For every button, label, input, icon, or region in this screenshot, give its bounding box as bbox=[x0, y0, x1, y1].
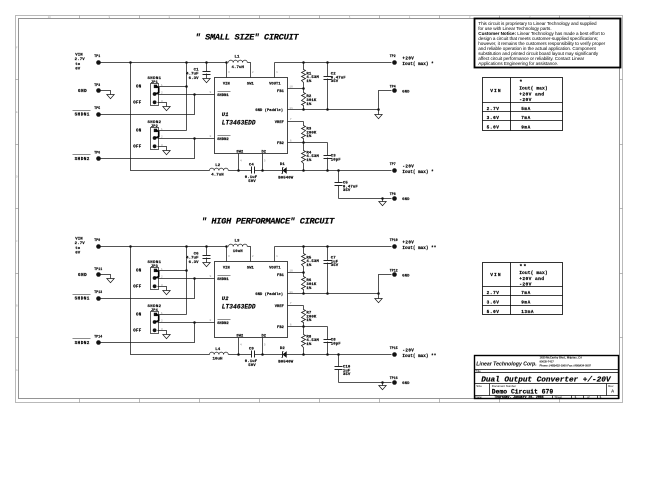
U2 side pin numbers bbox=[210, 269, 294, 347]
U2 SHDN2 pin name bbox=[217, 320, 230, 327]
junction D2 stub / rail bbox=[261, 169, 264, 172]
svg-text:L4: L4 bbox=[215, 348, 221, 352]
capacitor C1 bbox=[203, 63, 211, 79]
junction VIN rail / jumper drop bbox=[185, 61, 188, 64]
ground symbol at TP16 bbox=[379, 383, 386, 390]
svg-text:TP15: TP15 bbox=[390, 346, 398, 350]
wire D2 pin stub bbox=[262, 154, 264, 171]
label Size bbox=[476, 384, 482, 388]
svg-text:TP12: TP12 bbox=[390, 268, 398, 272]
U2 GND paddle pin name bbox=[255, 292, 283, 297]
testpoint TP4 (GND) bbox=[390, 84, 411, 94]
U1 FB2 pin name bbox=[277, 142, 284, 146]
wire SW2 pin stub bbox=[238, 154, 240, 171]
wire jumper ON drop bbox=[186, 247, 188, 315]
svg-text:Linear Technology Corp.: Linear Technology Corp. bbox=[476, 361, 536, 367]
jumper JP2 pin 2 bbox=[153, 136, 157, 140]
svg-text:A: A bbox=[611, 389, 614, 395]
svg-text:SW1: SW1 bbox=[247, 267, 255, 271]
table * header bbox=[490, 80, 548, 104]
U2 FB2 pin name bbox=[277, 326, 284, 330]
testpoint TP1 (VIN) bbox=[94, 54, 101, 65]
svg-text:FB2: FB2 bbox=[277, 326, 284, 330]
svg-text:2: 2 bbox=[161, 319, 163, 323]
wire C5 to TP8 bbox=[339, 198, 392, 200]
U2 part number LT3463EDD bbox=[222, 303, 256, 310]
jumper JP2 body bbox=[151, 128, 159, 150]
svg-text:B0540W: B0540W bbox=[278, 360, 294, 364]
jumper JP3 SHDN1 label bbox=[147, 261, 161, 269]
wire JP3 pin1 to VIN drop bbox=[158, 270, 187, 272]
svg-text:9: 9 bbox=[210, 274, 212, 278]
jumper JP2 OFF label bbox=[133, 146, 142, 150]
wire JP4 pin1 to VIN drop bbox=[158, 314, 187, 316]
label Document Number bbox=[492, 384, 516, 388]
U2 reference bbox=[222, 296, 229, 302]
wire JP2 pin2 to U SHDN2 pin bbox=[158, 138, 215, 140]
svg-text:GND: GND bbox=[402, 274, 410, 278]
junction ground tap bbox=[381, 381, 384, 384]
wire JP3 pin3 to ground bbox=[158, 287, 167, 291]
svg-text:+20V and: +20V and bbox=[519, 276, 544, 282]
svg-text:Sheet: Sheet bbox=[555, 395, 563, 399]
wire FB2 pin net bbox=[288, 142, 328, 144]
svg-text:TP11: TP11 bbox=[94, 267, 102, 271]
svg-text:-20V: -20V bbox=[402, 166, 414, 170]
ground symbol at JP1 bbox=[163, 107, 170, 111]
U1 bottom pin names bbox=[236, 150, 266, 154]
junction SHDN1 net bbox=[193, 93, 196, 96]
table Iout(max) * grid bbox=[483, 78, 563, 131]
U1 side pin numbers bbox=[210, 85, 294, 163]
date value bbox=[494, 395, 543, 399]
resistor R8 bbox=[302, 327, 320, 355]
capacitor C3 bbox=[324, 143, 342, 171]
svg-text:D2: D2 bbox=[280, 347, 286, 351]
svg-text:GND (Paddle): GND (Paddle) bbox=[255, 108, 283, 113]
wire TP4 to GND net bbox=[379, 91, 392, 110]
wire VIN feed drop to lower inductor bbox=[131, 63, 210, 171]
jumper JP1 ON label bbox=[136, 86, 142, 90]
svg-text:JP1: JP1 bbox=[151, 81, 158, 85]
wire JP3 pin2 to U SHDN1 pin bbox=[158, 278, 215, 280]
wire C10 to TP16 bbox=[339, 382, 392, 384]
U1 SHDN1 pin name bbox=[217, 92, 230, 99]
wire TP14 to jumper pin 2 net bbox=[101, 323, 195, 343]
svg-text:1%: 1% bbox=[306, 80, 312, 84]
testpoint TP14 (SHDN2) bbox=[73, 335, 103, 346]
jumper JP3 pin numbers bbox=[161, 267, 163, 287]
table * row 2.7V = 5mA bbox=[487, 107, 531, 112]
jumper JP2 SHDN2 label bbox=[147, 121, 161, 129]
svg-text:1%: 1% bbox=[306, 135, 312, 139]
svg-text:Rev: Rev bbox=[608, 384, 614, 388]
svg-text:OFF: OFF bbox=[133, 286, 142, 290]
svg-text:SW2: SW2 bbox=[236, 334, 243, 338]
wire jumper ON drop bbox=[186, 63, 188, 131]
testpoint TP10 (+20V) bbox=[390, 238, 398, 249]
ground symbol at JP2 bbox=[163, 151, 170, 155]
svg-text:SHDN1: SHDN1 bbox=[217, 94, 229, 98]
svg-text:Date:: Date: bbox=[475, 395, 482, 399]
wire +20V output rail bbox=[275, 62, 392, 64]
svg-text:8: 8 bbox=[210, 134, 212, 138]
svg-text:VIN: VIN bbox=[223, 267, 230, 271]
junction GND net / C2 bbox=[326, 108, 329, 111]
testpoint TP8 (GND) bbox=[390, 192, 411, 202]
title small size circuit bbox=[195, 33, 299, 43]
revision A bbox=[611, 389, 614, 395]
resistor R2 bbox=[302, 89, 317, 110]
svg-text:VREF: VREF bbox=[275, 305, 284, 309]
svg-text:TP10: TP10 bbox=[390, 238, 398, 242]
capacitor C6 bbox=[203, 247, 211, 263]
junction SW2 stub / rail bbox=[237, 353, 240, 356]
svg-text:GND: GND bbox=[402, 198, 410, 202]
svg-text:B0540W: B0540W bbox=[278, 176, 294, 180]
svg-text:95035-7417: 95035-7417 bbox=[540, 359, 555, 363]
svg-text:-20V: -20V bbox=[519, 281, 532, 287]
wire VREF pin to divider bbox=[288, 121, 304, 123]
svg-text:2: 2 bbox=[161, 135, 163, 139]
junction GND net / C7 bbox=[326, 292, 329, 295]
svg-text:Document Number: Document Number bbox=[492, 384, 516, 388]
svg-text:50V: 50V bbox=[248, 364, 256, 368]
jumper JP4 ON label bbox=[136, 314, 142, 318]
jumper JP1 pin numbers bbox=[161, 83, 163, 103]
svg-text:SW1: SW1 bbox=[247, 83, 255, 87]
junction -20V rail / C8 bbox=[326, 353, 329, 356]
wire FB1 pin to divider bbox=[288, 88, 304, 90]
jumper JP2 pin 1 (ON) bbox=[154, 129, 157, 132]
testpoint TP2 (+20V) bbox=[390, 54, 397, 65]
inductor L1 bbox=[229, 56, 248, 70]
svg-text:6V: 6V bbox=[75, 67, 81, 71]
svg-text:Iout( max) **: Iout( max) ** bbox=[402, 354, 436, 359]
capacitor C5 bbox=[335, 171, 359, 199]
svg-text:1: 1 bbox=[575, 395, 577, 399]
capacitor C4 (flying) bbox=[245, 163, 258, 183]
svg-text:2.7V: 2.7V bbox=[75, 242, 86, 246]
junction +20V rail / R5 bbox=[302, 245, 305, 248]
svg-text:TP8: TP8 bbox=[390, 192, 396, 196]
capacitor C1 value label bbox=[186, 68, 199, 80]
junction FB1 / R5 / R6 bbox=[302, 271, 305, 274]
resistor R5 bbox=[302, 247, 320, 273]
svg-text:+20V: +20V bbox=[402, 242, 414, 246]
svg-text:LT3463EDD: LT3463EDD bbox=[222, 119, 256, 126]
junction D2 stub / rail bbox=[261, 353, 264, 356]
svg-text:1: 1 bbox=[276, 70, 278, 74]
svg-text:TP14: TP14 bbox=[94, 335, 102, 339]
wire +20V output rail bbox=[275, 246, 392, 248]
label Rev bbox=[608, 384, 614, 388]
svg-text:TP13: TP13 bbox=[94, 290, 102, 294]
svg-text:Title: Title bbox=[475, 369, 481, 373]
junction -20V rail / C5 bbox=[337, 169, 340, 172]
svg-text:SHDN1: SHDN1 bbox=[75, 296, 90, 301]
svg-text:OFF: OFF bbox=[133, 330, 142, 334]
svg-text:GND: GND bbox=[78, 89, 87, 94]
svg-text:35V: 35V bbox=[331, 264, 339, 268]
svg-text:JP3: JP3 bbox=[151, 265, 158, 269]
svg-text:35V: 35V bbox=[331, 80, 339, 84]
svg-text:1%: 1% bbox=[306, 319, 312, 323]
jumper JP2 shorting bar pins 1-2 bbox=[155, 130, 159, 138]
company name bbox=[476, 361, 536, 367]
jumper JP3 pin 1 (ON) bbox=[154, 269, 157, 272]
jumper JP3 body bbox=[151, 268, 159, 290]
jumper JP3 pin 3 (OFF) bbox=[153, 284, 157, 288]
svg-text:1: 1 bbox=[276, 254, 278, 258]
jumper JP1 pin 3 (OFF) bbox=[153, 100, 157, 104]
wire flying cap to diode D2 bbox=[255, 354, 283, 356]
jumper JP3 ON label bbox=[136, 270, 142, 274]
ground symbol on GND paddle net bbox=[375, 294, 382, 303]
svg-text:-20V: -20V bbox=[402, 350, 414, 354]
svg-text:8: 8 bbox=[210, 318, 212, 322]
svg-text:2: 2 bbox=[161, 275, 163, 279]
svg-text:SHDN2: SHDN2 bbox=[217, 138, 229, 142]
junction VIN rail / jumper drop bbox=[185, 245, 188, 248]
node VIN input labels bbox=[75, 54, 86, 72]
svg-text:*: * bbox=[519, 80, 523, 86]
jumper JP4 pin 3 (OFF) bbox=[153, 328, 157, 332]
svg-text:Iout( max) *: Iout( max) * bbox=[402, 170, 434, 175]
svg-text:VIN: VIN bbox=[75, 238, 83, 242]
svg-text:7mA: 7mA bbox=[521, 291, 531, 296]
testpoint TP16 (GND) bbox=[390, 376, 411, 386]
wire VIN pin stub bbox=[226, 247, 228, 262]
U1 GND paddle pin name bbox=[255, 108, 283, 113]
op-amp U1 LT3463EDD body bbox=[215, 78, 288, 154]
svg-text:U2: U2 bbox=[222, 296, 229, 302]
svg-text:2: 2 bbox=[161, 91, 163, 95]
node VIN input labels bbox=[75, 238, 86, 256]
wire JP1 pin3 to ground bbox=[158, 103, 167, 107]
svg-text:ON: ON bbox=[136, 86, 142, 90]
junction -20V rail / R4 bbox=[302, 169, 305, 172]
testpoint TP13 (SHDN1) bbox=[73, 290, 103, 301]
op-amp U2 LT3463EDD body bbox=[215, 262, 288, 338]
svg-text:of: of bbox=[587, 395, 590, 399]
wire VOUT1 pin stub bbox=[274, 63, 276, 78]
svg-text:D1: D1 bbox=[280, 163, 286, 167]
svg-text:JP4: JP4 bbox=[151, 309, 159, 313]
document number Demo Circuit 679 bbox=[492, 388, 554, 395]
junction VIN rail / feed drop bbox=[129, 61, 132, 64]
wire JP1 pin1 to VIN drop bbox=[158, 86, 187, 88]
U2 SHDN1 pin name bbox=[217, 276, 230, 283]
junction +20V rail / R1 bbox=[302, 61, 305, 64]
capacitor C2 bbox=[324, 63, 347, 110]
jumper JP4 pin 2 bbox=[153, 320, 157, 324]
title high performance circuit bbox=[202, 216, 336, 226]
svg-text:5: 5 bbox=[264, 158, 266, 162]
wire FB2 pin net bbox=[288, 326, 328, 328]
svg-text:2.7V: 2.7V bbox=[487, 291, 500, 296]
svg-text:3.6V: 3.6V bbox=[487, 116, 500, 121]
svg-text:L2: L2 bbox=[215, 164, 221, 168]
junction GND net / TP12 bbox=[377, 292, 380, 295]
svg-text:9: 9 bbox=[210, 90, 212, 94]
svg-text:SHDN2: SHDN2 bbox=[75, 341, 90, 346]
wire JP4 pin2 to U SHDN2 pin bbox=[158, 322, 215, 324]
junction -20V rail / R8 bbox=[302, 353, 305, 356]
svg-text:VOUT1: VOUT1 bbox=[269, 83, 281, 87]
svg-text:1%: 1% bbox=[306, 343, 312, 347]
junction SW2 stub / rail bbox=[237, 169, 240, 172]
jumper JP4 pin numbers bbox=[161, 311, 163, 331]
svg-text:VIN: VIN bbox=[75, 54, 83, 58]
svg-text:VIN: VIN bbox=[223, 83, 230, 87]
junction GND net / R2 bbox=[302, 108, 305, 111]
testpoint TP9 (VIN) bbox=[94, 238, 101, 249]
junction SHDN2 net bbox=[193, 137, 196, 140]
inductor L3 bbox=[229, 240, 248, 254]
capacitor C6 value label bbox=[186, 252, 199, 264]
wire VIN pin stub bbox=[226, 63, 228, 78]
jumper JP4 body bbox=[151, 312, 159, 334]
jumper JP1 shorting bar pins 1-2 bbox=[155, 86, 159, 94]
svg-text:Iout( max): Iout( max) bbox=[519, 86, 548, 92]
testpoint TP3 (GND) bbox=[78, 83, 101, 94]
wire VOUT1 pin stub bbox=[274, 247, 276, 262]
resistor R4 bbox=[302, 143, 320, 171]
svg-text:5mA: 5mA bbox=[521, 107, 531, 112]
node -20V output labels bbox=[402, 166, 434, 175]
title block outer box bbox=[475, 356, 619, 399]
junction SHDN2 net bbox=[193, 321, 196, 324]
company address bbox=[540, 356, 592, 368]
table ** row 2.7V = 7mA bbox=[487, 291, 531, 296]
svg-text:L1: L1 bbox=[234, 56, 240, 60]
junction JP1 pin1 / VIN drop bbox=[185, 85, 188, 88]
jumper JP3 pin 2 bbox=[153, 276, 157, 280]
jumper JP1 OFF label bbox=[133, 102, 142, 106]
svg-text:50V: 50V bbox=[248, 180, 256, 184]
jumper JP3 OFF label bbox=[133, 286, 142, 290]
capacitor C8 bbox=[324, 327, 342, 355]
svg-text:**: ** bbox=[519, 264, 527, 270]
svg-text:4: 4 bbox=[240, 342, 242, 346]
capacitor C10 bbox=[335, 355, 351, 383]
wire TP6 to jumper pin 2 net bbox=[101, 139, 195, 159]
wire TP12 to GND net bbox=[379, 275, 392, 294]
table * row 3.6V = 7mA bbox=[487, 116, 531, 121]
svg-text:to: to bbox=[75, 247, 81, 251]
svg-text:9mA: 9mA bbox=[521, 301, 531, 306]
junction +20V rail / C7 bbox=[326, 245, 329, 248]
svg-text:TP3: TP3 bbox=[94, 83, 100, 87]
jumper JP1 SHDN1 label bbox=[147, 77, 161, 85]
svg-text:Iout( max) **: Iout( max) ** bbox=[402, 246, 436, 251]
wire VIN feed drop to lower inductor bbox=[131, 247, 210, 355]
svg-text:SHDN2: SHDN2 bbox=[217, 322, 229, 326]
wire inductor to flying cap bbox=[229, 354, 252, 356]
table ** row 3.6V = 9mA bbox=[487, 301, 531, 306]
wire -20V output rail bbox=[287, 170, 392, 172]
svg-text:U1: U1 bbox=[222, 112, 229, 118]
svg-text:VIN: VIN bbox=[490, 88, 502, 94]
wire GND paddle net bbox=[288, 293, 379, 295]
resistor R3 bbox=[302, 122, 317, 143]
jumper JP4 SHDN2 label bbox=[147, 305, 161, 313]
customer notice box bbox=[475, 19, 621, 68]
svg-text:9mA: 9mA bbox=[521, 126, 531, 131]
testpoint TP6 (SHDN2) bbox=[73, 151, 101, 162]
resistor R6 bbox=[302, 273, 317, 294]
svg-text:4.7uH: 4.7uH bbox=[231, 66, 244, 70]
svg-text:7mA: 7mA bbox=[521, 116, 531, 121]
svg-text:C9: C9 bbox=[249, 347, 255, 351]
svg-text:GND: GND bbox=[78, 273, 87, 278]
svg-text:1630 McCarthy Blvd., Milpitas,: 1630 McCarthy Blvd., Milpitas, CA bbox=[540, 356, 583, 360]
wire VIN rail bbox=[101, 246, 227, 248]
svg-text:10pF: 10pF bbox=[331, 158, 342, 162]
svg-text:2.7V: 2.7V bbox=[75, 58, 86, 62]
U1 top pin numbers bbox=[228, 70, 278, 74]
junction VIN rail / feed drop bbox=[129, 245, 132, 248]
junction VIN rail / C6 bbox=[205, 245, 208, 248]
junction VIN rail / VIN pin stub bbox=[225, 245, 228, 248]
U2 top pin names bbox=[223, 267, 282, 271]
svg-text:SHDN2: SHDN2 bbox=[75, 157, 90, 162]
ground symbol at TP8 bbox=[379, 199, 386, 206]
svg-text:10: 10 bbox=[289, 269, 293, 273]
svg-text:SHDN1: SHDN1 bbox=[75, 112, 90, 117]
capacitor C9 (flying) bbox=[245, 347, 258, 367]
junction -20V rail / C10 bbox=[337, 353, 340, 356]
U1 reference bbox=[222, 112, 229, 118]
wire TP13 to jumper pin 2 net bbox=[101, 279, 195, 299]
svg-text:3: 3 bbox=[228, 254, 230, 258]
svg-text:4: 4 bbox=[240, 158, 242, 162]
svg-text:10uH: 10uH bbox=[212, 358, 223, 362]
testpoint TP7 (-20V) bbox=[390, 162, 397, 173]
ground symbol at TP11 bbox=[107, 279, 114, 283]
junction +20V rail / C2 bbox=[326, 61, 329, 64]
svg-text:6.3V: 6.3V bbox=[189, 77, 200, 81]
svg-text:10pF: 10pF bbox=[331, 342, 342, 346]
wire TP5 to jumper pin 2 net bbox=[101, 95, 195, 115]
U2 VREF pin name bbox=[275, 305, 284, 309]
svg-text:Phone: (408)432-1900 Fax: (408: Phone: (408)432-1900 Fax: (408)434-0507 bbox=[540, 363, 592, 367]
table Iout(max) ** grid bbox=[483, 263, 563, 315]
svg-text:6: 6 bbox=[290, 323, 292, 327]
svg-text:-20V: -20V bbox=[519, 97, 532, 103]
svg-text:OFF: OFF bbox=[133, 146, 142, 150]
svg-text:1%: 1% bbox=[306, 264, 312, 268]
svg-text:SW2: SW2 bbox=[236, 150, 243, 154]
svg-text:6V: 6V bbox=[75, 251, 81, 255]
svg-text:4.7uH: 4.7uH bbox=[211, 174, 224, 178]
jumper JP2 ON label bbox=[136, 130, 142, 134]
jumper JP3 shorting bar pins 1-2 bbox=[155, 270, 159, 278]
testpoint TP12 (GND) bbox=[390, 268, 411, 278]
wire JP2 pin3 to ground bbox=[158, 147, 167, 151]
svg-text:VIN: VIN bbox=[490, 272, 502, 278]
junction -20V rail / C3 bbox=[326, 169, 329, 172]
testpoint TP5 (SHDN1) bbox=[73, 106, 101, 117]
U1 VREF pin name bbox=[275, 121, 284, 125]
svg-text:L3: L3 bbox=[234, 240, 240, 244]
svg-text:5: 5 bbox=[264, 342, 266, 346]
svg-text:13mA: 13mA bbox=[521, 310, 534, 315]
testpoint TP15 (-20V) bbox=[390, 346, 398, 357]
svg-text:TP2: TP2 bbox=[390, 54, 396, 58]
svg-text:TP9: TP9 bbox=[94, 238, 100, 242]
